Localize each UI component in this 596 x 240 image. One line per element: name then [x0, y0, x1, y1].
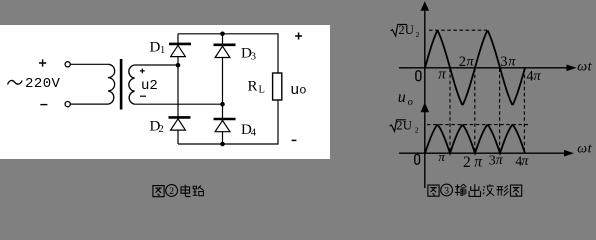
- dashed peak level (top): [429, 29, 487, 31]
- svg-text:π: π: [474, 154, 483, 171]
- wire: bridge right leg: [222, 34, 224, 144]
- resistor RL body: [273, 73, 282, 100]
- wire: bridge left leg: [177, 34, 179, 144]
- junction dot bottom rail: [220, 142, 225, 147]
- wire: top rail to load: [178, 34, 278, 73]
- caption: figure 3 output waveform (Chinese 'tu 3 shu chu bo xing tu'): [428, 185, 439, 196]
- wire: bottom rail to load: [178, 100, 278, 144]
- bottom chart y-axis: [424, 110, 426, 188]
- svg-text:2: 2: [459, 54, 466, 70]
- dashed peak level (bottom): [427, 124, 528, 126]
- polarity - (output): [292, 139, 297, 141]
- diode D2: [169, 116, 191, 119]
- svg-text:ωt: ωt: [577, 141, 592, 156]
- svg-text:u: u: [290, 82, 299, 99]
- svg-text:2: 2: [463, 154, 471, 171]
- transformer T1 primary winding: [108, 64, 115, 104]
- uo rectified curve: [425, 125, 525, 153]
- terminal (top): [65, 62, 70, 67]
- dashed vertical at 3pi: [499, 69, 501, 153]
- polarity + (source): [39, 59, 46, 66]
- svg-text:ωt: ωt: [577, 60, 592, 75]
- transformer T1 secondary winding: [129, 65, 135, 104]
- label sqrt2 U2 (top): [391, 24, 407, 36]
- label 0 (bottom): [415, 154, 420, 164]
- svg-text:2: 2: [398, 23, 404, 37]
- top chart x-axis: [399, 67, 567, 69]
- polarity - (source): [40, 104, 47, 106]
- dashed vertical at 4pi: [523, 69, 525, 153]
- polarity - (secondary): [140, 95, 146, 97]
- bottom chart x-axis: [399, 152, 564, 154]
- svg-text:3: 3: [251, 52, 256, 63]
- svg-text:2: 2: [415, 125, 419, 134]
- junction dot top rail: [220, 32, 225, 37]
- wire: bottom terminal to primary: [70, 103, 108, 105]
- diode D1: [169, 43, 191, 46]
- transformer core: [120, 59, 123, 110]
- svg-text:o: o: [408, 97, 413, 108]
- svg-text:π: π: [534, 69, 542, 84]
- svg-text:U: U: [405, 23, 414, 37]
- wire: top terminal to primary: [70, 63, 108, 65]
- node B junction dot: [220, 102, 225, 107]
- label sqrt2 U2 (bottom): [390, 120, 406, 132]
- svg-text:220V: 220V: [25, 76, 61, 92]
- svg-text:2: 2: [416, 30, 420, 39]
- white panel of circuit figure: [0, 25, 330, 159]
- node A junction dot: [176, 63, 181, 68]
- svg-text:D: D: [150, 39, 161, 55]
- svg-text:π: π: [508, 54, 516, 69]
- svg-text:3: 3: [489, 153, 496, 168]
- svg-text:U: U: [403, 119, 412, 133]
- terminal (bottom): [65, 102, 70, 107]
- svg-text:3: 3: [444, 186, 449, 196]
- dashed vertical at 2pi: [474, 69, 476, 153]
- svg-text:R: R: [248, 79, 258, 95]
- AC source symbol ~: [8, 80, 23, 84]
- svg-text:u2: u2: [141, 78, 158, 94]
- top chart y-axis: [424, 9, 426, 104]
- svg-text:2: 2: [159, 124, 164, 135]
- diode D3: [214, 43, 236, 46]
- label 0 (top): [416, 71, 421, 81]
- svg-text:o: o: [299, 84, 306, 98]
- svg-text:1: 1: [160, 45, 165, 56]
- wire: secondary top to bridge node A: [135, 64, 178, 66]
- diode D4: [214, 118, 236, 121]
- svg-text:2: 2: [169, 187, 174, 197]
- svg-text:4: 4: [251, 128, 257, 139]
- svg-text:u: u: [398, 89, 406, 106]
- polarity + (secondary): [140, 69, 145, 74]
- svg-text:π: π: [438, 149, 445, 164]
- caption: figure 2 circuit (Chinese 'tu 2 dian lu'): [153, 186, 164, 197]
- dashed vertical at pi: [449, 69, 451, 153]
- svg-text:2: 2: [396, 119, 402, 133]
- polarity + (output): [295, 33, 302, 40]
- svg-text:L: L: [259, 85, 265, 96]
- svg-text:π: π: [438, 66, 446, 82]
- svg-text:π: π: [467, 54, 475, 69]
- svg-text:3: 3: [500, 54, 507, 70]
- wire: secondary bottom to bridge node B (crosses left leg): [135, 103, 223, 105]
- u2 sine curve: [425, 31, 525, 104]
